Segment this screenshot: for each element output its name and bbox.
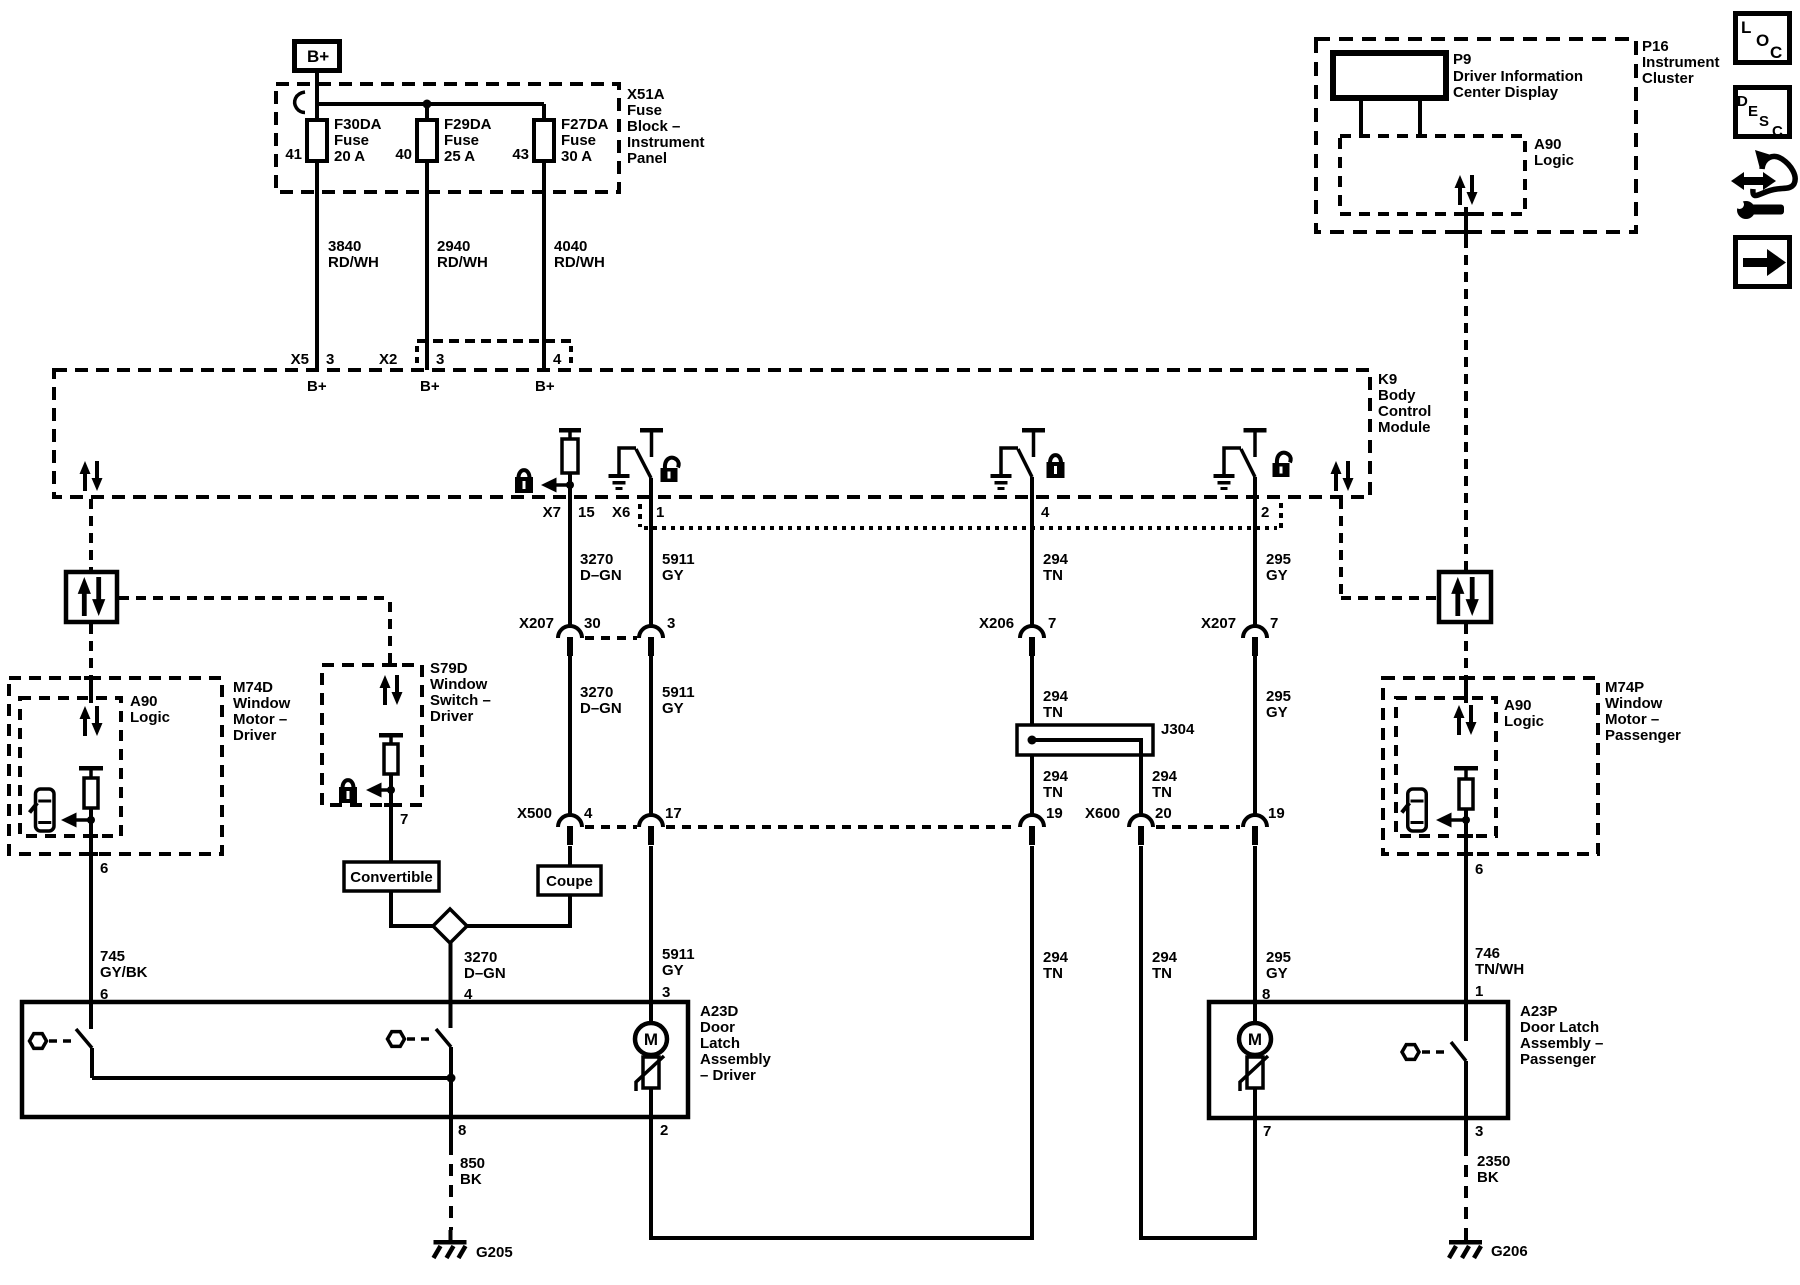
splice pack J304 [1017, 721, 1195, 755]
BCM passenger lock switch to ground [1001, 428, 1045, 477]
svg-text:G205: G205 [476, 1244, 513, 1261]
svg-text:8: 8 [458, 1122, 466, 1139]
S79D closed padlock icon [339, 780, 357, 803]
svg-text:GY: GY [1266, 965, 1288, 982]
svg-text:3: 3 [667, 615, 675, 632]
A23D door latch motor M [635, 1023, 667, 1117]
svg-text:2350: 2350 [1477, 1153, 1510, 1170]
M74P car icon [1402, 789, 1426, 831]
svg-text:D–GN: D–GN [464, 965, 506, 982]
svg-text:Window: Window [1605, 695, 1663, 712]
wire 3270 D-GN BCM X7-15 to X207 [570, 497, 622, 627]
svg-text:M74P: M74P [1605, 679, 1644, 696]
svg-text:Convertible: Convertible [350, 869, 433, 886]
svg-text:850: 850 [460, 1155, 485, 1172]
svg-text:Center Display: Center Display [1453, 84, 1559, 101]
svg-text:X207: X207 [1201, 615, 1236, 632]
svg-text:Instrument: Instrument [627, 134, 705, 151]
A90 logic label (cluster) [1534, 136, 1574, 169]
connector X600 pin 19 [1020, 805, 1063, 845]
driver window command serial box [66, 572, 117, 622]
M74D car icon [30, 789, 54, 831]
svg-text:20: 20 [1155, 805, 1172, 822]
svg-text:K9: K9 [1378, 371, 1397, 388]
window switch driver S79D dashed box [322, 665, 422, 805]
connector X207 pin 3 [639, 615, 675, 656]
svg-text:E: E [1748, 103, 1758, 120]
svg-text:5911: 5911 [662, 946, 695, 963]
svg-text:3: 3 [326, 351, 334, 368]
svg-text:D: D [1737, 93, 1748, 110]
svg-text:4: 4 [553, 351, 562, 368]
connector X206 pin 7 [979, 615, 1056, 656]
svg-text:X207: X207 [519, 615, 554, 632]
svg-text:F30DA: F30DA [334, 116, 382, 133]
A23D door latch assembly driver label [700, 1003, 772, 1084]
fuse F29DA 25A pin 40 [395, 116, 491, 165]
wire 295 GY X207 to X600 [1255, 656, 1291, 816]
svg-text:J304: J304 [1161, 721, 1195, 738]
connector X600 pin 19 (passenger) [1243, 805, 1285, 845]
svg-text:2940: 2940 [437, 238, 470, 255]
svg-text:295: 295 [1266, 949, 1291, 966]
M74D window move arrow [61, 813, 95, 828]
svg-text:B+: B+ [535, 378, 555, 395]
ground symbol (passenger unlock) [1214, 474, 1235, 490]
service vehicle icon [1731, 150, 1795, 219]
wires P9 to A90 [1361, 98, 1420, 136]
svg-text:C: C [1772, 123, 1783, 140]
instrument cluster P16 dashed box [1316, 39, 1636, 232]
svg-text:20 A: 20 A [334, 148, 365, 165]
svg-text:RD/WH: RD/WH [554, 254, 605, 271]
M74P window motor passenger label [1605, 679, 1681, 744]
wire Coupe to diamond [467, 895, 570, 926]
Coupe option box [538, 866, 601, 895]
dashed wire BCM to command box [1341, 499, 1437, 598]
A23P pin labels 1 7 3 [1475, 983, 1483, 1140]
BCM passenger unlock switch to ground [1224, 428, 1267, 477]
svg-text:3270: 3270 [464, 949, 497, 966]
wire X500 to Coupe box [568, 846, 572, 866]
svg-text:Door Latch: Door Latch [1520, 1019, 1599, 1036]
svg-text:X206: X206 [979, 615, 1014, 632]
P16 A90 logic dashed box [1340, 136, 1525, 214]
wire 3840 RD/WH [317, 161, 379, 370]
svg-text:TN: TN [1043, 784, 1063, 801]
svg-text:43: 43 [512, 146, 529, 163]
connector X2 dashed bracket [417, 341, 571, 368]
svg-text:Driver: Driver [233, 727, 277, 744]
svg-text:O: O [1756, 31, 1769, 50]
svg-text:4: 4 [1041, 504, 1050, 521]
ground symbol (driver unlock) [609, 474, 630, 490]
svg-text:4040: 4040 [554, 238, 587, 255]
svg-text:Window: Window [233, 695, 291, 712]
wire B+ to fuse block [315, 73, 319, 106]
svg-text:Fuse: Fuse [627, 102, 662, 119]
window motor driver M74D dashed box [9, 678, 222, 854]
wire 294 TN J304 to X600 pin 19 [1032, 755, 1069, 816]
svg-text:7: 7 [1270, 615, 1278, 632]
svg-text:41: 41 [285, 146, 302, 163]
svg-text:GY: GY [1266, 567, 1288, 584]
M74D A90 logic dashed box [20, 698, 121, 836]
driver information center display P9 box [1333, 53, 1446, 98]
svg-text:BK: BK [1477, 1169, 1499, 1186]
svg-text:TN: TN [1043, 704, 1063, 721]
svg-text:2: 2 [1261, 504, 1269, 521]
node B+ labels [307, 378, 555, 395]
wire 5911 GY X207 to X500 [651, 656, 695, 816]
svg-text:X600: X600 [1085, 805, 1120, 822]
svg-text:Switch –: Switch – [430, 692, 491, 709]
nav icon DESC box [1736, 88, 1790, 141]
svg-text:Assembly –: Assembly – [1520, 1035, 1603, 1052]
M74P window move arrow [1436, 813, 1470, 828]
nav icon LOC box [1736, 14, 1790, 63]
svg-text:15: 15 [578, 504, 595, 521]
Convertible option box [344, 862, 439, 891]
svg-text:Assembly: Assembly [700, 1051, 772, 1068]
svg-text:Motor –: Motor – [1605, 711, 1659, 728]
wire 294 TN BCM pin 4 to X206 [1032, 477, 1069, 627]
svg-text:GY: GY [662, 962, 684, 979]
svg-text:S79D: S79D [430, 660, 468, 677]
svg-text:D–GN: D–GN [580, 700, 622, 717]
wire 294 TN J304 to X600 pin 20 [1141, 755, 1178, 816]
X51A fuse block label [627, 86, 705, 167]
svg-text:30 A: 30 A [561, 148, 592, 165]
wire 5911 GY X500 to A23D motor pin 3 [651, 846, 695, 1023]
pin 6 and wire 745 GY/BK labels [100, 860, 148, 1003]
svg-text:2: 2 [660, 1122, 668, 1139]
svg-text:P9: P9 [1453, 51, 1471, 68]
fuse supply bus wire [317, 104, 544, 120]
svg-text:3: 3 [436, 351, 444, 368]
svg-text:A90: A90 [1534, 136, 1562, 153]
svg-text:P16: P16 [1642, 38, 1669, 55]
svg-text:Coupe: Coupe [546, 873, 593, 890]
svg-text:Module: Module [1378, 419, 1431, 436]
svg-text:7: 7 [1048, 615, 1056, 632]
P9 display label [1453, 51, 1583, 101]
svg-text:1: 1 [1475, 983, 1483, 1000]
door latch assembly passenger A23P box [1209, 1002, 1508, 1118]
svg-text:Latch: Latch [700, 1035, 740, 1052]
svg-text:Motor –: Motor – [233, 711, 287, 728]
svg-text:7: 7 [1263, 1123, 1271, 1140]
S79D up/down arrows [380, 675, 403, 705]
M74D window motor driver label [233, 679, 291, 744]
svg-text:A23P: A23P [1520, 1003, 1558, 1020]
svg-text:294: 294 [1152, 949, 1178, 966]
S79D switch resistor and output wire [379, 733, 403, 862]
svg-text:Window: Window [430, 676, 488, 693]
M74P A90 logic dashed box [1396, 698, 1496, 836]
svg-text:4: 4 [584, 805, 593, 822]
open padlock icon (passenger unlock) [1273, 453, 1291, 477]
svg-text:Body: Body [1378, 387, 1416, 404]
svg-text:TN: TN [1043, 965, 1063, 982]
fuse block X51A dashed box [276, 84, 619, 192]
svg-text:294: 294 [1043, 949, 1069, 966]
svg-text:Driver: Driver [430, 708, 474, 725]
svg-text:GY: GY [662, 700, 684, 717]
connector X6 dotted boundary [640, 503, 1281, 528]
body control module K9 dashed box [54, 370, 1370, 497]
svg-text:GY/BK: GY/BK [100, 964, 148, 981]
svg-text:RD/WH: RD/WH [437, 254, 488, 271]
M74D entry wire [89, 678, 93, 703]
svg-text:F29DA: F29DA [444, 116, 492, 133]
open padlock icon (unlock) [661, 458, 679, 482]
svg-text:Panel: Panel [627, 150, 667, 167]
wire crossing ticks at dashed edges [84, 214, 1473, 854]
A23D internal wire and junction [92, 1074, 456, 1083]
svg-text:17: 17 [665, 805, 682, 822]
svg-text:40: 40 [395, 146, 412, 163]
svg-text:745: 745 [100, 948, 125, 965]
M74P up/down arrows [1454, 705, 1477, 735]
S79D window switch driver label [430, 660, 491, 725]
closed padlock icon (lock) [515, 470, 533, 493]
M74D motor drive resistor and output wire [79, 766, 103, 1002]
M74P entry wire [1464, 678, 1468, 703]
fuse F30DA 20A pin 41 [285, 116, 381, 165]
dashed link to S79D window switch [119, 598, 390, 663]
svg-text:BK: BK [460, 1171, 482, 1188]
svg-text:1: 1 [656, 504, 664, 521]
svg-text:5911: 5911 [662, 684, 695, 701]
battery feed B+ box [295, 42, 340, 71]
wire 3270 D-GN X207 to X500 [570, 656, 622, 816]
A23P door latch motor M [1239, 1023, 1271, 1118]
svg-text:294: 294 [1043, 688, 1069, 705]
svg-text:6: 6 [1475, 861, 1483, 878]
A90 logic label (passenger motor) [1504, 697, 1544, 730]
M74D up/down arrows [80, 706, 103, 736]
svg-text:Block –: Block – [627, 118, 680, 135]
wire 294 TN X600-19 to A23D pin 2 [651, 846, 1069, 1238]
A23P ajar switch [1402, 1002, 1466, 1118]
BCM lock command arrow [541, 478, 574, 493]
svg-text:M74D: M74D [233, 679, 273, 696]
A23P door latch assembly passenger label [1520, 1003, 1603, 1068]
closed padlock icon (passenger lock) [1047, 455, 1065, 478]
BCM driver unlock switch to ground [619, 428, 663, 478]
svg-text:Control: Control [1378, 403, 1431, 420]
wire 4040 RD/WH [544, 161, 605, 370]
svg-text:Fuse: Fuse [561, 132, 596, 149]
svg-text:3: 3 [1475, 1123, 1483, 1140]
BCM passenger window up/down arrows [1331, 461, 1354, 491]
svg-text:A23D: A23D [700, 1003, 739, 1020]
connector X500 pin 4 [517, 805, 637, 845]
svg-text:B+: B+ [307, 47, 329, 66]
svg-text:X5: X5 [291, 351, 309, 368]
ground G206 [1449, 1230, 1528, 1260]
svg-text:X7: X7 [543, 504, 561, 521]
P16 instrument cluster label [1642, 38, 1720, 87]
svg-text:30: 30 [584, 615, 601, 632]
svg-text:X6: X6 [612, 504, 630, 521]
window motor passenger M74P dashed box [1383, 678, 1598, 854]
svg-text:Logic: Logic [1534, 152, 1574, 169]
connector X207 pin 30 [519, 615, 637, 656]
wire 2350 BK to ground [1466, 1118, 1510, 1230]
pin 6 and wire 746 TN/WH labels [1475, 861, 1524, 978]
svg-text:C: C [1770, 43, 1782, 62]
svg-text:L: L [1741, 18, 1751, 37]
wire Convertible to diamond [391, 891, 433, 926]
svg-text:Door: Door [700, 1019, 735, 1036]
M74P motor drive resistor and output wire [1454, 766, 1478, 1002]
connector X600 pin 20 [1085, 805, 1240, 845]
BCM pin labels X7 15 X6 1 4 2 [543, 504, 1270, 521]
ground symbol (passenger lock) [991, 474, 1012, 490]
svg-text:Driver Information: Driver Information [1453, 68, 1583, 85]
svg-text:X500: X500 [517, 805, 552, 822]
serial data wire cluster to command box [1464, 207, 1468, 570]
BCM driver lock output resistor [559, 428, 581, 497]
A23D ground output wire pin 8 [449, 1078, 453, 1117]
svg-text:7: 7 [400, 811, 408, 828]
svg-text:M: M [644, 1030, 658, 1049]
svg-text:G206: G206 [1491, 1243, 1528, 1260]
wire 2940 RD/WH [427, 161, 488, 370]
dashed wire BCM to driver window command box [89, 499, 93, 570]
svg-text:B+: B+ [420, 378, 440, 395]
svg-text:746: 746 [1475, 945, 1500, 962]
connector cavity hook [295, 92, 305, 113]
svg-text:19: 19 [1046, 805, 1063, 822]
passenger window command serial box [1439, 572, 1491, 622]
A90 logic label (driver motor) [130, 693, 170, 726]
svg-text:– Driver: – Driver [700, 1067, 756, 1084]
wire 294 TN X600-20 to A23P pin 7 [1141, 846, 1271, 1238]
connector X207 pin 7 (passenger) [1201, 615, 1278, 656]
svg-text:295: 295 [1266, 688, 1291, 705]
svg-text:6: 6 [100, 860, 108, 877]
svg-text:3270: 3270 [580, 551, 613, 568]
svg-text:TN: TN [1152, 784, 1172, 801]
svg-text:A90: A90 [1504, 697, 1532, 714]
wire 295 GY X600 to A23P pin 8 [1255, 846, 1291, 1023]
wire 294 TN X206 to J304 [1032, 656, 1069, 725]
connector X500 pin 17 [639, 805, 1018, 845]
S79D lock arrow [366, 783, 395, 798]
door latch assembly driver A23D box [22, 1002, 688, 1117]
dashed wire to M74D [89, 624, 93, 678]
wire 5911 GY BCM X6-1 to X207 [651, 478, 695, 627]
svg-text:D–GN: D–GN [580, 567, 622, 584]
svg-text:TN/WH: TN/WH [1475, 961, 1524, 978]
svg-text:TN: TN [1043, 567, 1063, 584]
diamond option junction [433, 909, 467, 943]
svg-text:Logic: Logic [1504, 713, 1544, 730]
svg-text:S: S [1759, 113, 1769, 130]
K9 body control module label [1378, 371, 1431, 436]
svg-text:294: 294 [1043, 551, 1069, 568]
svg-text:Fuse: Fuse [334, 132, 369, 149]
svg-text:3270: 3270 [580, 684, 613, 701]
junction dot [423, 100, 432, 109]
svg-text:19: 19 [1268, 805, 1285, 822]
nav icon forward arrow box [1736, 238, 1790, 287]
fuse F27DA 30A pin 43 [512, 116, 608, 165]
svg-text:X51A: X51A [627, 86, 665, 103]
svg-text:295: 295 [1266, 551, 1291, 568]
BCM driver window up/down arrows [80, 461, 103, 491]
svg-text:294: 294 [1043, 768, 1069, 785]
svg-text:A90: A90 [130, 693, 158, 710]
svg-text:Passenger: Passenger [1520, 1051, 1596, 1068]
svg-text:F27DA: F27DA [561, 116, 609, 133]
svg-text:3: 3 [662, 984, 670, 1001]
svg-text:TN: TN [1152, 965, 1172, 982]
svg-text:25 A: 25 A [444, 148, 475, 165]
connector pin labels X5 3 / X2 3 / 4 [291, 351, 562, 368]
svg-text:294: 294 [1152, 768, 1178, 785]
A23D ajar switch (driver) [30, 1002, 93, 1078]
ground G205 [434, 1230, 513, 1261]
wire 295 GY BCM pin 2 to X207 [1255, 477, 1291, 627]
svg-text:Fuse: Fuse [444, 132, 479, 149]
svg-text:Logic: Logic [130, 709, 170, 726]
wire 850 BK to ground [451, 1117, 485, 1230]
svg-text:5911: 5911 [662, 551, 695, 568]
svg-text:RD/WH: RD/WH [328, 254, 379, 271]
svg-text:GY: GY [662, 567, 684, 584]
svg-text:GY: GY [1266, 704, 1288, 721]
svg-text:Instrument: Instrument [1642, 54, 1720, 71]
svg-text:3840: 3840 [328, 238, 361, 255]
svg-text:B+: B+ [307, 378, 327, 395]
A23D lock switch [388, 1029, 452, 1078]
svg-text:Cluster: Cluster [1642, 70, 1694, 87]
svg-text:Passenger: Passenger [1605, 727, 1681, 744]
svg-text:M: M [1248, 1030, 1262, 1049]
cluster A90 up/down arrows [1455, 175, 1478, 205]
wire 3270 D-GN to A23D pin 4 [451, 943, 506, 1028]
svg-text:X2: X2 [379, 351, 397, 368]
dashed wire command box to M74P [1464, 624, 1468, 678]
